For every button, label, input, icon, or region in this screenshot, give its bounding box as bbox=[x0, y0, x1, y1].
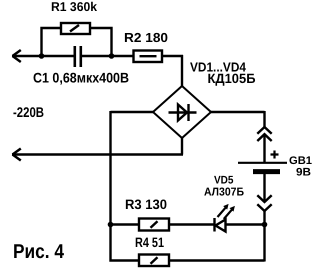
svg-text:R1 360k: R1 360k bbox=[51, 0, 98, 14]
svg-text:VD5: VD5 bbox=[214, 175, 234, 187]
svg-text:R3 130: R3 130 bbox=[125, 197, 167, 212]
svg-text:-220В: -220В bbox=[13, 104, 44, 120]
svg-text:GB1: GB1 bbox=[289, 155, 312, 167]
svg-text:АЛ307Б: АЛ307Б bbox=[204, 187, 244, 199]
svg-text:Рис. 4: Рис. 4 bbox=[13, 241, 65, 263]
svg-text:9В: 9В bbox=[296, 167, 311, 179]
svg-text:R4 51: R4 51 bbox=[135, 235, 164, 250]
svg-text:КД105Б: КД105Б bbox=[208, 71, 256, 86]
svg-text:С1 0,68мкх400В: С1 0,68мкх400В bbox=[33, 70, 129, 86]
svg-text:R2 180: R2 180 bbox=[124, 30, 168, 45]
